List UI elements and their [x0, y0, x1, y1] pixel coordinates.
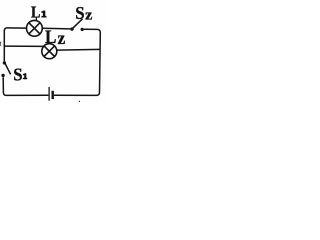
svg-text:z: z [58, 28, 66, 48]
svg-text:S: S [75, 3, 84, 23]
svg-text:L: L [45, 27, 56, 48]
svg-text:S: S [13, 65, 22, 85]
svg-text:L: L [31, 2, 40, 21]
svg-text:z: z [85, 6, 92, 23]
